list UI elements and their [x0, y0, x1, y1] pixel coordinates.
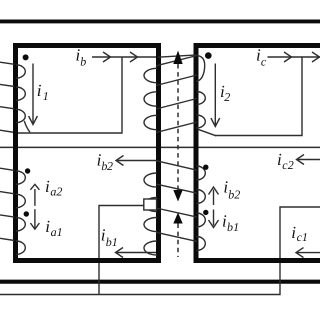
svg-text:1: 1 — [112, 235, 118, 249]
wire left-window loop (x=122 riser and y=133 run) — [0, 57, 122, 133]
current arrow i_b2 left window — [116, 156, 157, 166]
winding W4 center bottom (4 turns around both center legs) — [144, 161, 205, 255]
wire tap lead from box to bottom net — [99, 206, 145, 295]
svg-text:i: i — [291, 223, 296, 242]
winding W2 left leg bottom (4 turns) — [0, 168, 25, 254]
svg-text:b: b — [80, 54, 86, 68]
wire right-window loop (y=135.5 run, x=302 riser, i_c lead) — [215, 57, 320, 136]
current arrow i_b2 right window — [209, 187, 219, 205]
polarity dot i_b2 — [203, 165, 208, 170]
current arrow i_b1 right window — [209, 210, 219, 228]
svg-text:2: 2 — [107, 159, 113, 173]
current arrow i_c1 — [296, 248, 320, 258]
current arrow i_b (two arrowheads on top lead) — [103, 52, 138, 62]
svg-text:i: i — [45, 177, 50, 196]
polarity dot i_a2 — [25, 168, 30, 173]
wire top bus — [0, 19, 320, 23]
svg-text:c: c — [261, 54, 267, 68]
polarity dot i_b1 — [203, 210, 208, 215]
core 1 (left) — [16, 46, 159, 261]
svg-text:i: i — [37, 81, 42, 100]
flux arrow up (bottom, dashed) — [173, 213, 182, 224]
svg-text:2: 2 — [234, 187, 240, 201]
svg-text:2: 2 — [56, 185, 62, 199]
winding W3 center top (3 turns around both center legs) — [144, 55, 216, 136]
svg-text:i: i — [277, 150, 282, 169]
current arrow i_b1 left window bottom — [116, 248, 157, 258]
tap box on center leg — [144, 199, 157, 210]
svg-text:b: b — [106, 235, 112, 249]
svg-text:b: b — [227, 220, 233, 234]
core 2 (right, clipped at image edge) — [196, 46, 320, 261]
current arrow i1 — [29, 64, 38, 125]
wire bottom thin net y=294 — [0, 207, 320, 295]
current arrow i_a1 — [30, 209, 39, 229]
winding W1 left leg top (3 turns) — [0, 62, 30, 132]
wire full-width net at y=147 — [0, 146, 320, 148]
svg-text:2: 2 — [288, 158, 294, 172]
current arrow i_c (two arrowheads on top lead) — [284, 52, 320, 62]
polarity dot winding W1 — [23, 54, 29, 60]
svg-text:1: 1 — [43, 89, 49, 103]
wire bottom bus — [0, 280, 320, 284]
current arrow i2 — [211, 64, 220, 127]
polarity dot winding i2 — [205, 52, 212, 59]
current arrow i_c2 — [297, 155, 320, 165]
flux arrow up (top, dashed) — [173, 51, 182, 65]
polarity dot i_a1 — [24, 211, 29, 216]
current arrow i_a2 — [30, 184, 39, 206]
svg-text:1: 1 — [302, 230, 308, 244]
svg-text:i: i — [45, 217, 50, 236]
svg-text:1: 1 — [57, 225, 63, 239]
flux arrow down (middle, dashed) — [173, 190, 182, 202]
svg-text:2: 2 — [224, 90, 230, 104]
wire i_b lead at y=57 — [92, 56, 159, 58]
svg-text:1: 1 — [233, 220, 239, 234]
